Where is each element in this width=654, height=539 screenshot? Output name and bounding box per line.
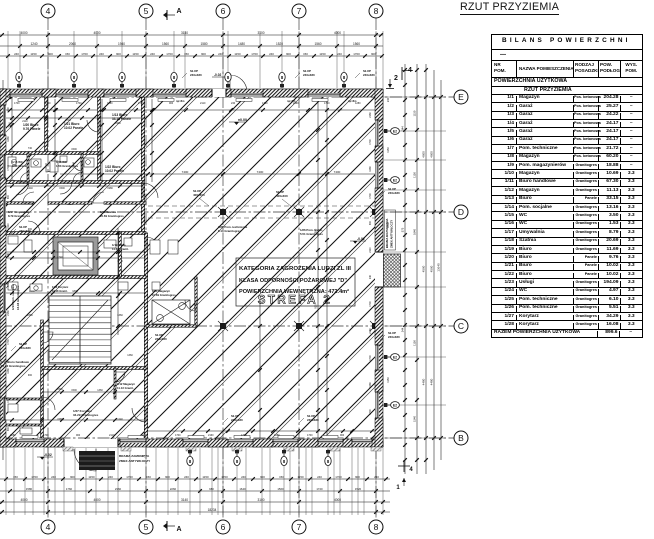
- svg-text:E2: E2: [393, 404, 397, 408]
- svg-text:1500: 1500: [59, 187, 65, 190]
- room label 1/22 Biuro: [105, 165, 124, 173]
- svg-text:1700: 1700: [175, 434, 181, 437]
- table row 1/11 Biuro handlowe: [492, 178, 642, 186]
- svg-text:4000: 4000: [334, 31, 341, 35]
- svg-text:240x480: 240x480: [19, 229, 31, 233]
- svg-text:1700: 1700: [307, 434, 313, 437]
- table row 1/23 Usługi: [492, 278, 642, 286]
- svg-text:BRAMA ZAMKNIĘTA: BRAMA ZAMKNIĘTA: [119, 454, 150, 458]
- svg-text:344: 344: [401, 126, 405, 131]
- svg-text:2160: 2160: [369, 328, 372, 334]
- table row 1/9 Pom. magazynierów: [492, 161, 642, 169]
- extension lines bottom dimension area: [6, 448, 383, 515]
- svg-text:1150: 1150: [132, 52, 139, 56]
- svg-text:1700: 1700: [31, 475, 38, 479]
- svg-text:1700: 1700: [7, 339, 10, 345]
- door arc top wall entrance (swings outside): [230, 75, 247, 92]
- svg-text:2160: 2160: [45, 102, 51, 105]
- svg-text:1150: 1150: [413, 110, 417, 116]
- svg-text:4560: 4560: [422, 265, 426, 272]
- svg-text:7400: 7400: [257, 170, 264, 174]
- room label 1/28 Korytarz: [52, 285, 69, 293]
- slup labels: [11, 342, 31, 351]
- bottom dimension chain line 3 (axis spans): [0, 498, 390, 504]
- svg-text:1540: 1540: [413, 416, 417, 422]
- svg-text:1700: 1700: [126, 475, 133, 479]
- bottom dimension chain line 2: [0, 487, 390, 493]
- svg-text:900: 900: [116, 52, 121, 56]
- interior wall column x99: [98, 97, 101, 182]
- svg-text:900: 900: [169, 102, 174, 105]
- svg-text:1560: 1560: [314, 42, 321, 46]
- svg-text:1760: 1760: [66, 487, 73, 491]
- svg-text:1150: 1150: [30, 52, 37, 56]
- svg-text:240x480: 240x480: [388, 335, 400, 339]
- svg-text:2160: 2160: [369, 112, 372, 118]
- interior wall x115 small room: [114, 368, 116, 399]
- svg-text:1280: 1280: [10, 434, 16, 437]
- svg-text:A: A: [176, 526, 181, 533]
- label BRAMA ROZSUWANA ZMEX ANTYWLOCZY (vertical): [385, 210, 396, 250]
- label BRAMA ZAMKNIETA: [119, 454, 151, 463]
- svg-text:150: 150: [65, 52, 70, 56]
- svg-text:3100: 3100: [257, 31, 264, 35]
- room label 1/16 WC: [56, 160, 79, 168]
- svg-text:D: D: [458, 207, 464, 217]
- svg-text:240: 240: [231, 102, 236, 105]
- svg-text:3140: 3140: [181, 31, 188, 35]
- svg-text:8: 8: [374, 6, 379, 16]
- room label 1/18 Szatnia: [100, 210, 124, 218]
- svg-text:1560: 1560: [353, 42, 360, 46]
- svg-text:150: 150: [279, 475, 284, 479]
- level mark -0.02 bottom-left: [37, 453, 53, 460]
- svg-text:13.16 Granitogres: 13.16 Granitogres: [16, 285, 20, 310]
- table row 1/16 WC: [492, 220, 642, 228]
- table row 1/15 WC: [492, 211, 642, 219]
- svg-text:4600: 4600: [422, 151, 426, 158]
- svg-text:1150: 1150: [386, 147, 390, 153]
- room label 1/21 Biuro: [64, 122, 83, 130]
- dim numbers along left strip: [7, 107, 10, 431]
- svg-text:1580: 1580: [200, 42, 207, 46]
- secondary offset hatch lines (double-line effect): [0, 90, 654, 450]
- short inner chains left strip: [2, 116, 143, 120]
- svg-text:4600: 4600: [430, 151, 434, 158]
- interior dim chain x327 vertical: [325, 100, 329, 438]
- interior wall y425 lower-left room: [0, 424, 42, 426]
- dim numbers along right wall inside: [369, 112, 372, 415]
- svg-text:±0.00: ±0.00: [238, 118, 247, 122]
- svg-text:1740: 1740: [57, 256, 63, 259]
- row grid axes E D C B (dash-dot): [0, 97, 454, 438]
- svg-text:1700: 1700: [14, 102, 20, 105]
- svg-text:1700: 1700: [221, 475, 228, 479]
- top dimension chain line 3 (dense): [0, 52, 384, 58]
- svg-text:8.79 Granitogres: 8.79 Granitogres: [8, 214, 31, 218]
- level mark -0.02 top door: [212, 73, 228, 77]
- svg-text:-0.02: -0.02: [357, 237, 365, 241]
- svg-text:2380: 2380: [27, 314, 33, 317]
- closed gate black rectangle: [79, 451, 115, 470]
- svg-text:16.08 Granit.: 16.08 Granit.: [52, 289, 68, 293]
- right dimension chains: [401, 64, 407, 474]
- level mark +-0.00: [229, 118, 247, 125]
- detail marker 4/1 bottom right: [396, 460, 413, 491]
- svg-text:2110: 2110: [200, 102, 206, 105]
- svg-text:1940: 1940: [118, 42, 125, 46]
- table row 1/1 Magazyn: [492, 94, 642, 102]
- svg-text:np=8m: np=8m: [348, 99, 357, 103]
- svg-text:6: 6: [221, 522, 226, 532]
- table row 1/21 Biuro: [492, 262, 642, 270]
- svg-text:900: 900: [165, 475, 170, 479]
- svg-text:1150: 1150: [319, 52, 326, 56]
- svg-text:10.02 Panele: 10.02 Panele: [64, 126, 83, 130]
- svg-text:2260: 2260: [170, 487, 177, 491]
- svg-text:7: 7: [297, 522, 302, 532]
- exterior wall right: [375, 89, 383, 447]
- svg-text:1580: 1580: [26, 487, 33, 491]
- svg-text:1280: 1280: [107, 102, 113, 105]
- level mark -0.02 right: [350, 237, 366, 244]
- svg-text:5: 5: [144, 6, 149, 16]
- svg-text:1700: 1700: [7, 281, 10, 287]
- svg-text:2060: 2060: [69, 42, 76, 46]
- svg-text:240: 240: [14, 52, 19, 56]
- room label 1/25 Pom. techniczne: [218, 225, 248, 233]
- svg-text:150: 150: [146, 475, 151, 479]
- column grid axes 4..8 (dash-dot): [48, 18, 376, 520]
- svg-text:1150: 1150: [413, 172, 417, 178]
- svg-text:900: 900: [48, 52, 53, 56]
- svg-text:1150: 1150: [413, 340, 417, 346]
- svg-text:1500: 1500: [57, 388, 63, 391]
- table row 1/25 Pom. techniczne: [492, 295, 642, 303]
- svg-text:1.53 Granitogres: 1.53 Granitogres: [56, 164, 79, 168]
- svg-text:ZMEX ANTYWŁOCZY: ZMEX ANTYWŁOCZY: [119, 459, 151, 463]
- window marker ellipses below bottom wall: [187, 449, 193, 466]
- room label 1/12 Magazyn: [117, 382, 135, 390]
- svg-text:1980: 1980: [115, 122, 121, 125]
- interior dim chain x318 vertical: [314, 100, 320, 438]
- svg-text:400x400: 400x400: [193, 193, 205, 197]
- svg-text:1480: 1480: [238, 42, 245, 46]
- bottom dimension overall line: [0, 508, 390, 514]
- table column headers: [492, 60, 642, 77]
- svg-text:1560: 1560: [277, 487, 284, 491]
- table row 1/3 Garaż: [492, 111, 642, 119]
- svg-text:1280: 1280: [369, 166, 372, 172]
- svg-text:E2: E2: [393, 356, 397, 360]
- table row 1/19 Biuro: [492, 245, 642, 253]
- svg-text:240x480: 240x480: [303, 73, 315, 77]
- svg-text:240: 240: [184, 475, 189, 479]
- svg-text:10.02 Panele: 10.02 Panele: [105, 169, 124, 173]
- svg-text:240: 240: [369, 274, 372, 279]
- svg-text:2360: 2360: [115, 487, 122, 491]
- room label 1/17 Umywalnia: [8, 210, 31, 218]
- svg-text:1280: 1280: [369, 382, 372, 388]
- rotated labels near right wall: [386, 97, 390, 383]
- interior wall y153 under offices: [0, 152, 99, 155]
- svg-text:1700: 1700: [335, 475, 342, 479]
- interior wall equipment room y326: [146, 325, 196, 327]
- svg-text:1700: 1700: [138, 102, 144, 105]
- table row 1/24 WC: [492, 287, 642, 295]
- svg-text:B: B: [458, 433, 464, 443]
- table row 1/13 Biuro: [492, 195, 642, 203]
- room label 1/13 Biuro: [112, 113, 131, 121]
- exterior wall top: [0, 89, 383, 97]
- svg-text:34.29 Granitogres: 34.29 Granitogres: [73, 413, 99, 417]
- svg-text:67.30 Granitogres: 67.30 Granitogres: [1, 364, 26, 368]
- svg-text:1980: 1980: [107, 187, 113, 190]
- svg-text:344: 344: [401, 327, 405, 332]
- table BILANS POWIERZCHNI: [491, 34, 643, 338]
- svg-text:1720: 1720: [316, 487, 323, 491]
- svg-text:1700: 1700: [166, 52, 173, 56]
- svg-text:240: 240: [269, 52, 274, 56]
- svg-text:1640: 1640: [239, 487, 246, 491]
- room label 1/20 Biuro: [23, 123, 41, 131]
- columns (slup) on axes D and C: [218, 207, 228, 217]
- svg-text:np=8m: np=8m: [176, 99, 185, 103]
- table row 1/2 Garaż: [492, 102, 642, 110]
- svg-text:4: 4: [46, 6, 51, 16]
- fire-zone diagonal hatch over plan: [0, 90, 654, 450]
- radiators under windows: [18, 99, 338, 439]
- slup 400x400 labels: [193, 189, 209, 206]
- svg-text:1150: 1150: [386, 377, 390, 383]
- svg-text:2110: 2110: [369, 247, 372, 253]
- svg-text:1700: 1700: [251, 52, 258, 56]
- svg-text:1280: 1280: [274, 434, 280, 437]
- svg-text:2110: 2110: [7, 223, 10, 229]
- svg-text:ZMEX ANTYWŁOCZY: ZMEX ANTYWŁOCZY: [390, 220, 394, 248]
- svg-text:900: 900: [260, 475, 265, 479]
- drawing title RZUT PRZYZIEMIA: [460, 1, 559, 15]
- svg-text:240: 240: [142, 434, 147, 437]
- interior dim chain x260 vertical: [258, 300, 262, 438]
- svg-text:5: 5: [144, 522, 149, 532]
- axis circles top 4 5 6 7 8: [41, 4, 55, 18]
- svg-text:1560: 1560: [162, 42, 169, 46]
- inner dim chain below top wall: [0, 108, 376, 112]
- interior wall column x46 offices: [45, 97, 48, 153]
- lift shaft walls: [53, 237, 98, 275]
- extra interior dim numbers left strip: [22, 119, 133, 421]
- interior wall wc partition x82: [81, 153, 83, 182]
- top dimension chain line 1: [0, 31, 383, 37]
- window dim numbers inside top wall: [14, 102, 361, 105]
- svg-text:2110: 2110: [109, 434, 115, 437]
- svg-text:740: 740: [28, 147, 33, 150]
- section marker A top: [163, 8, 182, 20]
- svg-text:E2: E2: [393, 179, 397, 183]
- interior wall y182 corridor top: [0, 181, 143, 184]
- svg-text:150: 150: [303, 52, 308, 56]
- svg-text:1/14 Pom. socjalne: 1/14 Pom. socjalne: [11, 284, 15, 310]
- svg-text:900: 900: [7, 426, 10, 431]
- svg-text:1700: 1700: [369, 355, 372, 361]
- dashed lane line in hall: [148, 205, 375, 207]
- room label 1/11 Biuro handlowe: [1, 360, 29, 368]
- interior wall y203 corridor bottom: [0, 202, 34, 204]
- room label 1/14 Pom. socjalne (rotated): [11, 284, 20, 310]
- svg-text:900: 900: [286, 52, 291, 56]
- interior wall x146 main spine: [144, 233, 147, 438]
- svg-text:1700: 1700: [7, 165, 10, 171]
- fire safety note box: [236, 258, 355, 307]
- svg-text:1700: 1700: [7, 397, 10, 403]
- interior dim chain y252 left: [0, 250, 146, 254]
- exterior wall bottom: [0, 439, 383, 447]
- svg-text:240: 240: [7, 252, 10, 257]
- svg-text:240x480: 240x480: [363, 73, 375, 77]
- svg-text:C: C: [458, 321, 464, 331]
- extension lines right dimension area: [384, 97, 446, 438]
- table row RAZEM total: [492, 329, 642, 337]
- svg-text:240: 240: [99, 52, 104, 56]
- table row 1/8 Magazyn: [492, 153, 642, 161]
- interior wall y233: [0, 232, 146, 235]
- svg-text:1150: 1150: [297, 475, 304, 479]
- interior wall y399 corridor 1/27 top: [0, 398, 42, 400]
- room label 1/10 Magazyn: [152, 289, 176, 297]
- room label 1/27 Korytarz: [73, 409, 99, 417]
- svg-text:1240: 1240: [117, 418, 123, 421]
- svg-text:900: 900: [76, 434, 81, 437]
- svg-text:33.15 Panele: 33.15 Panele: [112, 117, 131, 121]
- interior wall y368 below stairs: [42, 367, 146, 370]
- wc fixtures left strip: [8, 156, 178, 434]
- table row 1/28 Korytarz: [492, 320, 642, 328]
- svg-text:10.69 Granitogres: 10.69 Granitogres: [152, 293, 176, 297]
- svg-text:4480: 4480: [430, 378, 434, 385]
- window marker ellipses right wall E2: [383, 128, 399, 135]
- room label 1/15 WC: [12, 160, 27, 168]
- svg-text:1360: 1360: [127, 354, 133, 357]
- interior dim chain hall y174: [60, 170, 378, 176]
- svg-text:11.13 Granit.: 11.13 Granit.: [117, 386, 134, 390]
- table row 1/20 Biuro: [492, 253, 642, 261]
- sliding gate leaf (cross-hatched) right wall: [384, 254, 401, 287]
- svg-text:2160: 2160: [7, 310, 10, 316]
- exterior wall left: [0, 89, 6, 447]
- staircase 1/28: [49, 296, 111, 364]
- room label 1/26 Pom. techniczne: [300, 228, 323, 236]
- svg-text:1150: 1150: [88, 475, 95, 479]
- detail marker 2/4 top right: [386, 67, 413, 89]
- svg-text:1700: 1700: [262, 102, 268, 105]
- table section row POWIERZCHNIA UZYTKOWA: [492, 77, 642, 86]
- svg-text:E: E: [458, 92, 464, 102]
- interior dim chain left strip y392: [42, 389, 146, 394]
- axis circles bottom 4 5 6 7 8: [41, 520, 55, 534]
- svg-text:1700: 1700: [369, 193, 372, 199]
- svg-text:900: 900: [7, 194, 10, 199]
- svg-text:4000: 4000: [93, 498, 100, 502]
- svg-text:7: 7: [297, 6, 302, 16]
- svg-text:1500: 1500: [71, 389, 77, 392]
- left dimension chain: [1, 80, 5, 460]
- window marker ellipses above top wall: [16, 72, 22, 88]
- svg-text:A: A: [176, 8, 181, 15]
- interior wall column x143 (main): [141, 97, 144, 233]
- svg-text:900: 900: [201, 52, 206, 56]
- svg-text:240: 240: [317, 475, 322, 479]
- svg-text:240: 240: [108, 475, 113, 479]
- svg-text:2160: 2160: [208, 434, 214, 437]
- svg-text:KATEGORIA ZAGROŻENIA LUDZI ZL: KATEGORIA ZAGROŻENIA LUDZI ZL III: [239, 265, 351, 272]
- table row 1/4 Garaż: [492, 119, 642, 127]
- svg-text:1700: 1700: [369, 409, 372, 415]
- svg-text:20.69 Granitogres: 20.69 Granitogres: [100, 214, 124, 218]
- axis circles right E D C B: [454, 90, 468, 104]
- svg-text:900: 900: [371, 52, 376, 56]
- svg-text:1700: 1700: [241, 434, 247, 437]
- interior dim chain left strip y186: [0, 184, 143, 190]
- entrance door arc bottom: [74, 449, 96, 471]
- inner dim chain above bottom wall: [148, 429, 376, 433]
- table row 1/6 Garaż: [492, 136, 642, 144]
- svg-text:240: 240: [337, 52, 342, 56]
- svg-text:4560: 4560: [430, 265, 434, 272]
- interior wall wc partition x28: [27, 153, 29, 182]
- table row 1/17 Umywalnia: [492, 228, 642, 236]
- svg-text:400x400: 400x400: [276, 194, 288, 198]
- svg-text:240: 240: [150, 52, 155, 56]
- equipment symbol room 1/10: [152, 300, 190, 324]
- svg-text:240: 240: [374, 475, 379, 479]
- svg-text:1800: 1800: [72, 290, 78, 293]
- svg-text:4480: 4480: [422, 378, 426, 385]
- extension lines top dimension area: [8, 31, 383, 88]
- svg-text:1700: 1700: [369, 301, 372, 307]
- svg-text:1700: 1700: [353, 52, 360, 56]
- interior dim chain left strip y293: [0, 290, 146, 295]
- top dimension chain line 2: [0, 42, 383, 48]
- door arcs corridor to rooms (up): [23, 192, 34, 203]
- svg-text:900: 900: [70, 475, 75, 479]
- svg-text:240x480: 240x480: [155, 337, 167, 341]
- interior wall x42 lower-left: [41, 320, 44, 438]
- table row 1/22 Biuro: [492, 270, 642, 278]
- table row 1/10 Magazyn: [492, 169, 642, 177]
- svg-text:575: 575: [401, 227, 405, 232]
- svg-text:900: 900: [369, 220, 372, 225]
- window sill tabs below bottom wall: [63, 447, 73, 451]
- table section row RZUT PRZYZIEMIA: [492, 86, 642, 94]
- table row 1/12 Magazyn: [492, 186, 642, 194]
- svg-text:STREFA 2: STREFA 2: [258, 295, 333, 307]
- svg-text:3.50 Granit.: 3.50 Granit.: [12, 164, 27, 168]
- svg-text:3100: 3100: [257, 498, 264, 502]
- svg-text:E2: E2: [393, 130, 397, 134]
- svg-text:4: 4: [46, 522, 51, 532]
- svg-text:8: 8: [374, 522, 379, 532]
- svg-text:np=8m: np=8m: [287, 99, 296, 103]
- svg-text:1240: 1240: [30, 42, 37, 46]
- svg-text:240x480: 240x480: [388, 191, 400, 195]
- svg-text:240x480: 240x480: [307, 418, 319, 422]
- svg-text:1150: 1150: [234, 52, 241, 56]
- table row 1/27 Korytarz: [492, 312, 642, 320]
- svg-text:1150: 1150: [202, 475, 209, 479]
- svg-text:240: 240: [386, 97, 390, 102]
- table row 1/14 Pom. socjalne: [492, 203, 642, 211]
